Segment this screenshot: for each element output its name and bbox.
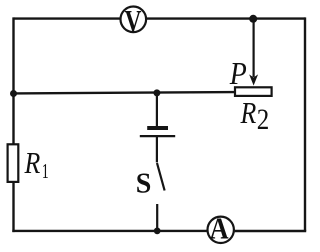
svg-text:P: P [229, 55, 247, 91]
svg-text:R: R [24, 145, 41, 180]
svg-text:1: 1 [42, 159, 49, 183]
battery negative plate (short thick) [147, 126, 168, 130]
node: junction top wire / slider arrow branch [249, 15, 257, 23]
node: junction middle wire / battery branch [153, 89, 160, 96]
wire: battery branch upper (junction to battery) [156, 93, 158, 127]
switch S blade [157, 163, 165, 191]
slider arrowhead P [250, 75, 257, 84]
svg-text:2: 2 [257, 104, 270, 136]
wire: switch to bottom wire [156, 204, 158, 231]
wire: left side, above R1 [12, 17, 14, 143]
wire: top side, left of voltmeter [14, 17, 121, 19]
wire: top side, right of voltmeter [147, 17, 305, 19]
wire: bottom side, left of ammeter [12, 230, 207, 232]
wire: right side [304, 17, 306, 231]
node: junction on left side at middle wire [10, 90, 17, 97]
wire: middle horizontal from left side to R2 [14, 92, 235, 93]
label R2 [240, 95, 270, 136]
ammeter A1 circle [208, 212, 234, 246]
svg-text:A: A [210, 212, 229, 246]
wire: bottom side, right of ammeter [235, 230, 307, 232]
svg-text:S: S [136, 168, 152, 199]
label R1 [24, 145, 49, 183]
svg-text:V: V [125, 4, 142, 38]
wire: left side, below R1 [12, 183, 14, 233]
rheostat R2 body [235, 87, 272, 96]
wire: slider arrow vertical from top wire [253, 19, 255, 77]
resistor R1 [8, 144, 19, 182]
wire: battery to switch [156, 136, 158, 162]
node: junction bottom wire / switch branch [154, 228, 161, 235]
battery positive plate (long thin) [140, 135, 175, 137]
voltmeter V1 circle [121, 4, 147, 38]
svg-text:R: R [240, 95, 257, 130]
